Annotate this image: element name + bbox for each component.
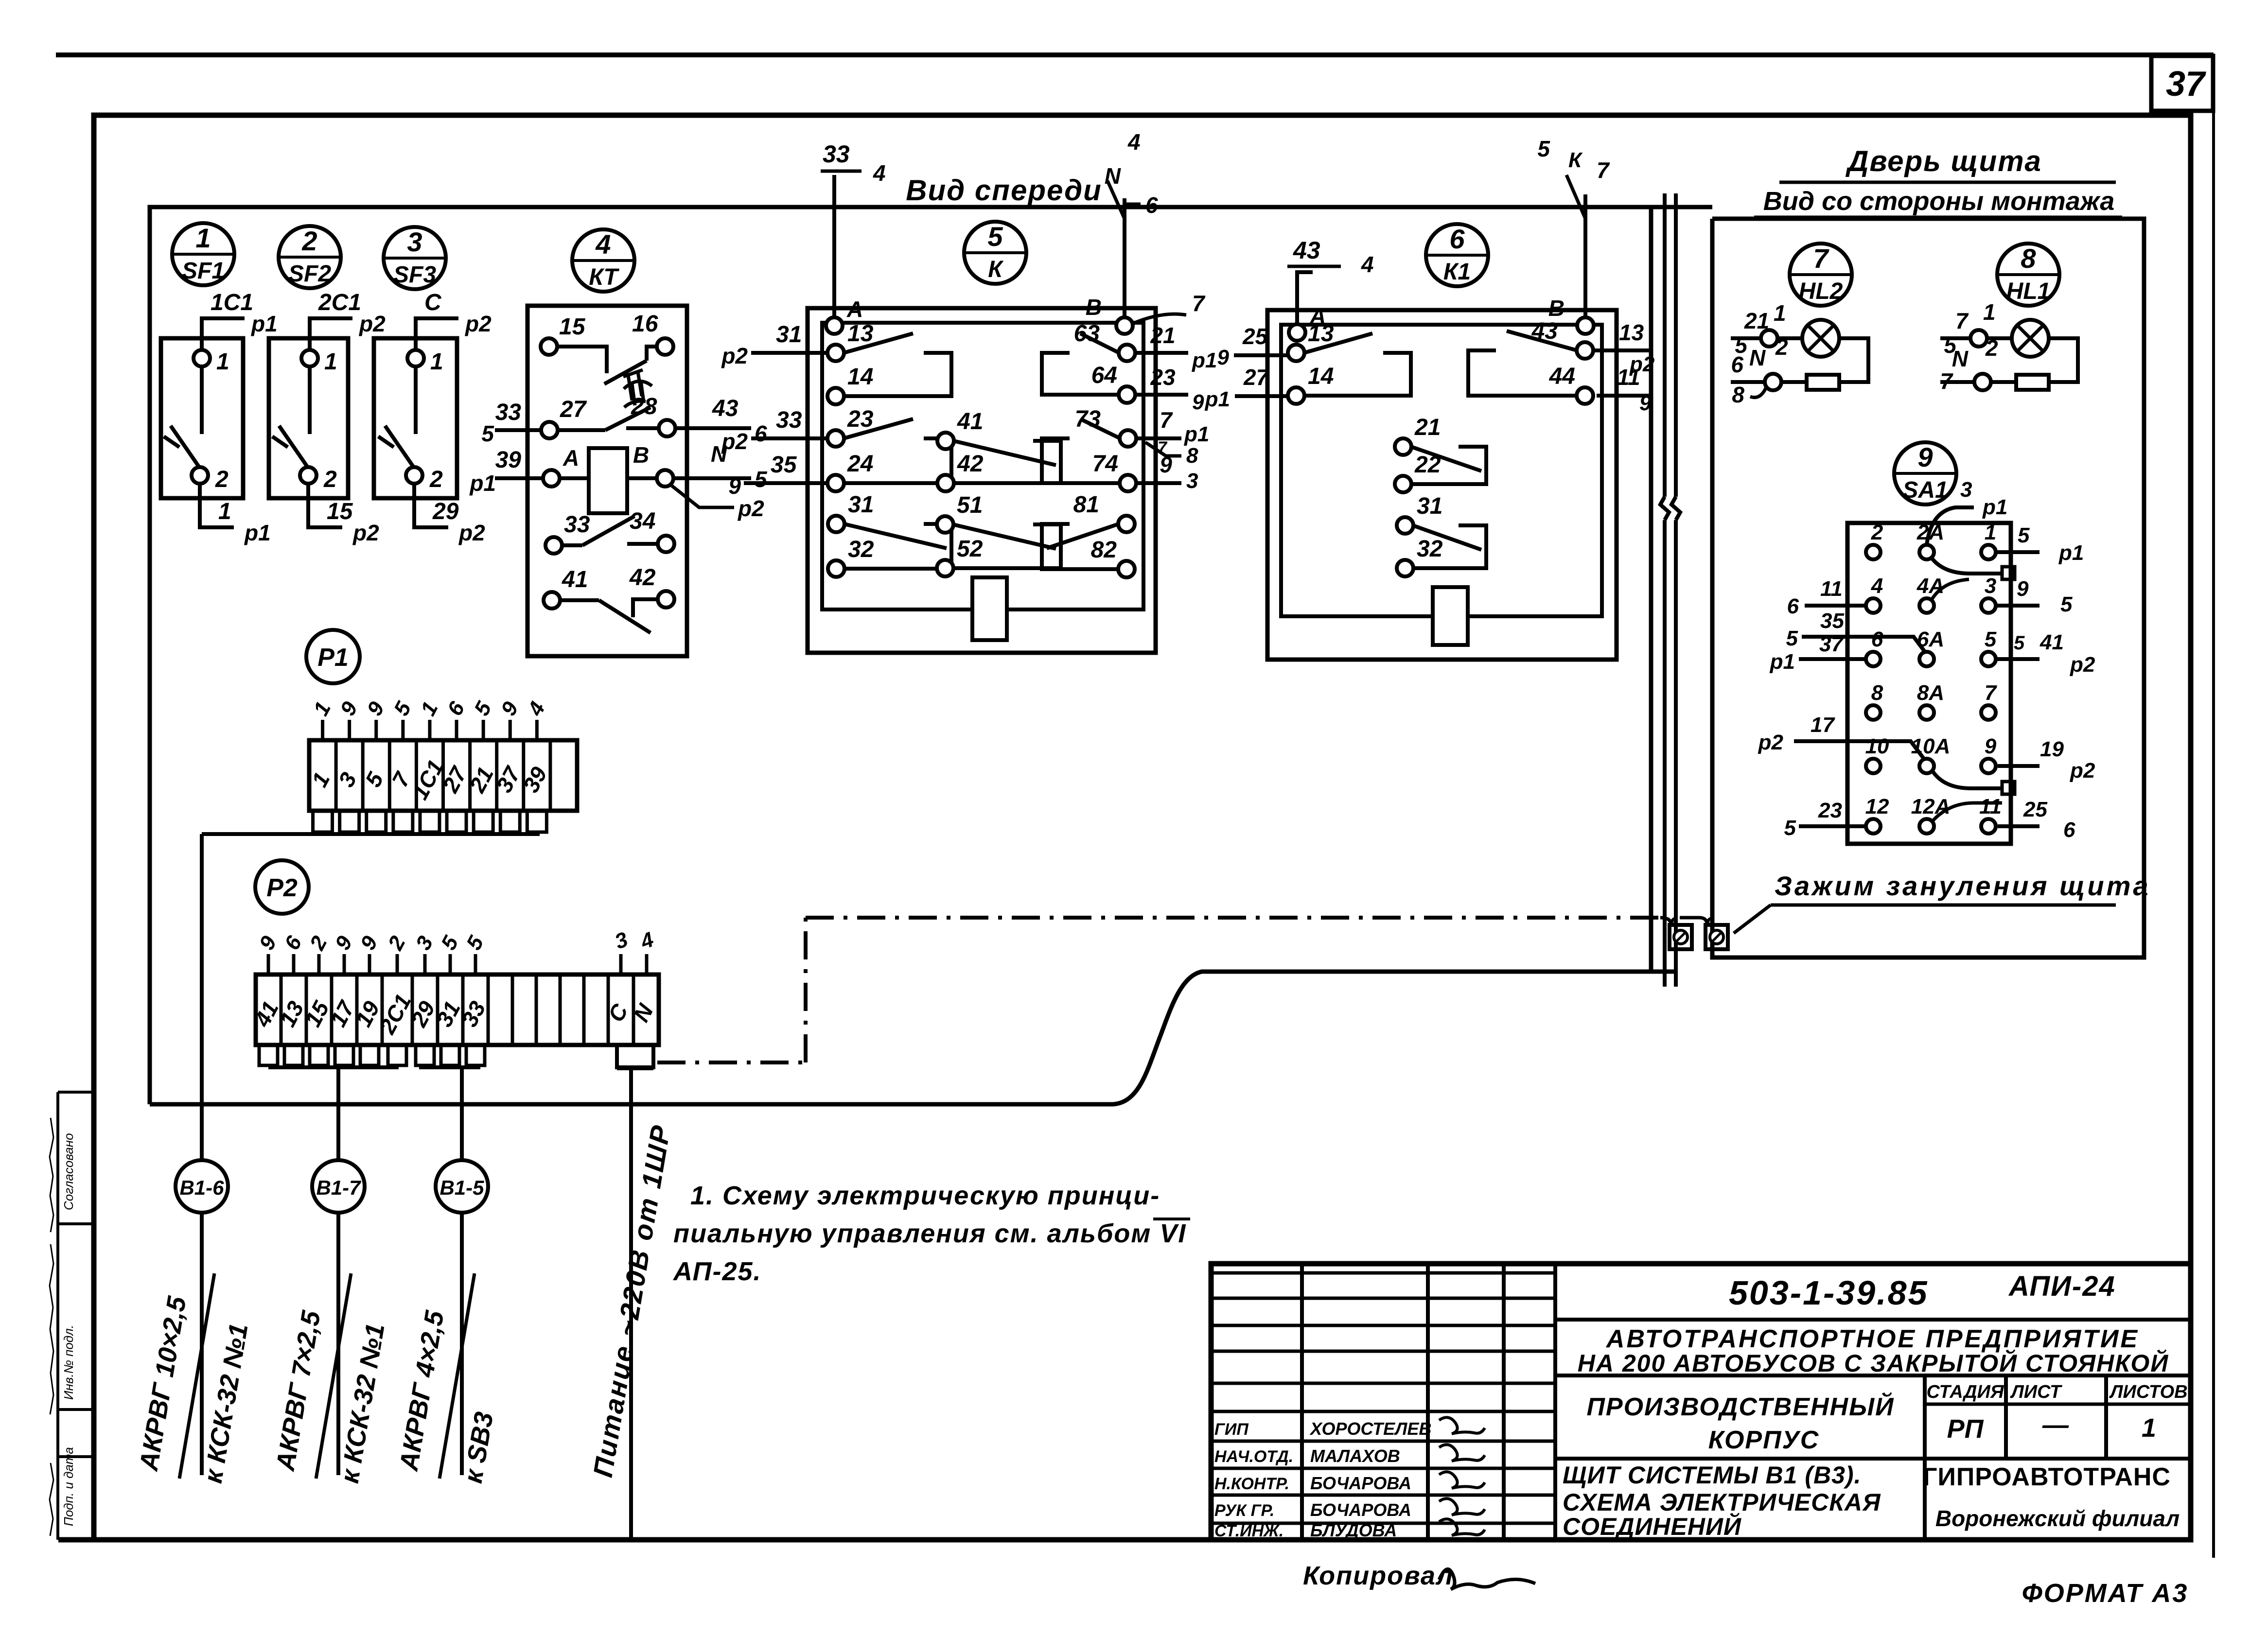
svg-text:HL1: HL1: [2006, 278, 2051, 304]
svg-text:р2: р2: [721, 343, 748, 368]
svg-text:В: В: [1086, 295, 1102, 320]
svg-text:р2: р2: [2070, 653, 2095, 677]
svg-text:4: 4: [523, 698, 550, 720]
svg-text:5: 5: [1784, 816, 1796, 840]
svg-text:р1: р1: [1184, 422, 1209, 446]
svg-text:РП: РП: [1947, 1414, 1984, 1444]
svg-text:5: 5: [2018, 523, 2030, 547]
svg-text:1. Схему электрическую принци-: 1. Схему электрическую принци-: [690, 1181, 1160, 1210]
svg-text:33: 33: [495, 400, 522, 425]
svg-text:13: 13: [847, 321, 874, 347]
svg-text:82: 82: [1091, 537, 1117, 563]
svg-text:9: 9: [1639, 391, 1652, 415]
svg-text:1: 1: [309, 698, 335, 720]
svg-text:41: 41: [2039, 630, 2064, 654]
svg-text:33: 33: [564, 512, 590, 538]
svg-text:41: 41: [562, 567, 588, 592]
svg-text:8: 8: [1732, 382, 1744, 407]
svg-text:3: 3: [1985, 574, 1996, 598]
svg-text:42: 42: [629, 565, 656, 591]
svg-text:5: 5: [987, 221, 1003, 252]
svg-text:9: 9: [331, 932, 357, 954]
svg-text:АП-25.: АП-25.: [672, 1257, 762, 1286]
svg-text:12А: 12А: [1911, 795, 1951, 818]
svg-text:5: 5: [2014, 632, 2025, 654]
svg-text:5: 5: [755, 467, 768, 492]
svg-text:52: 52: [957, 536, 983, 562]
svg-text:ЩИТ СИСТЕМЫ В1 (В3).: ЩИТ СИСТЕМЫ В1 (В3).: [1563, 1462, 1861, 1489]
svg-text:АКРВГ 7×2,5: АКРВГ 7×2,5: [270, 1308, 326, 1474]
svg-text:Вид со стороны монтажа: Вид со стороны монтажа: [1763, 187, 2114, 216]
svg-text:ЛИСТОВ: ЛИСТОВ: [2109, 1382, 2187, 1402]
svg-text:ХОРОСТЕЛЕВ: ХОРОСТЕЛЕВ: [1309, 1419, 1431, 1439]
svg-text:К: К: [1568, 148, 1583, 172]
svg-text:5: 5: [437, 932, 463, 954]
svg-text:12: 12: [1865, 795, 1889, 818]
svg-text:КТ: КТ: [589, 264, 619, 290]
svg-text:32: 32: [1417, 536, 1443, 562]
svg-text:SF3: SF3: [393, 262, 436, 288]
svg-text:14: 14: [1308, 364, 1334, 389]
svg-text:В1-5: В1-5: [440, 1176, 484, 1199]
svg-text:5: 5: [389, 697, 416, 719]
svg-text:В1-6: В1-6: [179, 1176, 224, 1199]
svg-text:КОРПУС: КОРПУС: [1708, 1426, 1820, 1454]
svg-text:БОЧАРОВА: БОЧАРОВА: [1310, 1500, 1411, 1520]
svg-text:Воронежский филиал: Воронежский филиал: [1935, 1506, 2180, 1531]
svg-text:27: 27: [560, 397, 587, 422]
svg-text:р1: р1: [244, 520, 271, 545]
svg-text:1: 1: [1985, 521, 1996, 544]
svg-text:Инв.№ подл.: Инв.№ подл.: [61, 1325, 76, 1400]
svg-text:р2: р2: [352, 520, 379, 545]
svg-text:СТАДИЯ: СТАДИЯ: [1926, 1382, 2004, 1402]
svg-text:9: 9: [356, 932, 383, 954]
svg-text:N: N: [1952, 346, 1969, 371]
svg-text:33: 33: [823, 140, 850, 168]
svg-text:К: К: [988, 257, 1004, 282]
svg-text:ГИП: ГИП: [1214, 1420, 1249, 1439]
svg-text:р1: р1: [1192, 348, 1217, 372]
svg-text:А: А: [563, 445, 579, 470]
svg-text:6: 6: [1871, 627, 1883, 651]
svg-text:33: 33: [776, 407, 802, 433]
svg-text:25: 25: [1242, 324, 1268, 349]
svg-text:С: С: [424, 290, 442, 315]
svg-text:р1: р1: [1205, 387, 1230, 411]
svg-text:17: 17: [1811, 713, 1835, 737]
svg-text:к SВ3: к SВ3: [458, 1410, 499, 1485]
svg-text:9: 9: [335, 697, 362, 719]
svg-text:3: 3: [1186, 469, 1198, 493]
svg-text:37: 37: [2166, 65, 2206, 104]
svg-text:41: 41: [957, 409, 983, 435]
svg-text:9: 9: [496, 697, 523, 719]
svg-text:44: 44: [1549, 364, 1575, 389]
svg-text:АКРВГ 4×2,5: АКРВГ 4×2,5: [394, 1308, 449, 1474]
svg-text:32: 32: [848, 537, 874, 562]
svg-text:В1-7: В1-7: [316, 1176, 361, 1199]
svg-text:5: 5: [2060, 592, 2073, 616]
svg-text:ФОРМАТ А3: ФОРМАТ А3: [2022, 1579, 2189, 1608]
svg-text:21: 21: [1150, 323, 1175, 348]
svg-text:11: 11: [1820, 577, 1843, 601]
svg-text:8: 8: [1186, 444, 1198, 468]
svg-text:7: 7: [1940, 368, 1953, 394]
svg-text:7: 7: [1597, 157, 1610, 183]
svg-text:АПИ-24: АПИ-24: [2008, 1271, 2116, 1302]
svg-text:31: 31: [848, 492, 874, 518]
svg-text:74: 74: [1092, 451, 1118, 477]
svg-text:2: 2: [429, 467, 443, 492]
svg-text:4: 4: [595, 229, 611, 260]
svg-text:2: 2: [215, 467, 229, 492]
svg-text:35: 35: [771, 452, 797, 478]
svg-text:2: 2: [301, 226, 317, 256]
svg-text:5: 5: [462, 932, 489, 954]
svg-text:503-1-39.85: 503-1-39.85: [1729, 1274, 1929, 1312]
svg-text:1: 1: [195, 223, 211, 253]
svg-text:6: 6: [755, 421, 767, 446]
svg-text:51: 51: [957, 492, 983, 518]
svg-text:9: 9: [1217, 346, 1230, 369]
svg-text:SF2: SF2: [288, 261, 331, 287]
svg-text:р1: р1: [1982, 495, 2007, 519]
svg-text:HL2: HL2: [1799, 278, 1843, 304]
svg-text:N: N: [1105, 163, 1121, 189]
svg-text:25: 25: [2023, 798, 2047, 821]
svg-text:8: 8: [2021, 243, 2036, 274]
svg-text:9: 9: [728, 473, 741, 499]
svg-text:43: 43: [712, 396, 738, 421]
svg-text:7: 7: [1985, 681, 1998, 705]
svg-text:9: 9: [255, 932, 281, 954]
svg-text:1: 1: [1774, 300, 1786, 326]
svg-text:21: 21: [1744, 308, 1769, 333]
svg-text:81: 81: [1073, 492, 1099, 518]
svg-text:В: В: [633, 442, 649, 468]
svg-text:11: 11: [1617, 365, 1640, 390]
svg-text:р1: р1: [1770, 650, 1795, 674]
svg-text:4: 4: [637, 927, 657, 954]
svg-text:МАЛАХОВ: МАЛАХОВ: [1310, 1446, 1400, 1466]
svg-text:р2: р2: [1758, 731, 1784, 754]
svg-text:SF1: SF1: [182, 258, 225, 284]
svg-text:7: 7: [1160, 407, 1173, 433]
svg-text:7: 7: [1192, 291, 1206, 316]
svg-text:SA1: SA1: [1902, 477, 1948, 503]
svg-text:23: 23: [1818, 799, 1842, 822]
svg-text:9: 9: [1917, 442, 1933, 472]
svg-text:А: А: [846, 296, 863, 322]
svg-text:39: 39: [495, 447, 522, 473]
svg-text:27: 27: [1243, 365, 1270, 390]
svg-text:р2: р2: [721, 429, 748, 454]
svg-text:3: 3: [612, 927, 631, 954]
svg-text:15: 15: [327, 499, 353, 524]
svg-text:Р1: Р1: [317, 644, 349, 672]
svg-text:1: 1: [430, 349, 443, 375]
svg-text:24: 24: [847, 451, 873, 477]
svg-text:4: 4: [1871, 574, 1883, 598]
svg-text:1: 1: [416, 698, 443, 720]
svg-text:НАЧ.ОТД.: НАЧ.ОТД.: [1214, 1447, 1293, 1466]
svg-text:N: N: [1749, 345, 1766, 370]
svg-text:К1: К1: [1443, 259, 1471, 285]
svg-text:2: 2: [383, 932, 410, 954]
svg-text:Дверь щита: Дверь щита: [1845, 145, 2042, 177]
svg-text:2С1: 2С1: [318, 290, 361, 315]
svg-text:ПРОИЗВОДСТВЕННЫЙ: ПРОИЗВОДСТВЕННЫЙ: [1587, 1392, 1895, 1421]
svg-text:БОЧАРОВА: БОЧАРОВА: [1310, 1473, 1411, 1493]
svg-text:—: —: [2042, 1410, 2069, 1440]
svg-text:пиальную управления см. альбом: пиальную управления см. альбом VI: [673, 1219, 1186, 1248]
svg-text:6: 6: [443, 697, 470, 719]
svg-text:29: 29: [432, 499, 459, 524]
svg-text:21: 21: [1414, 415, 1441, 440]
svg-text:6: 6: [1731, 352, 1743, 377]
svg-text:34: 34: [630, 508, 655, 534]
svg-text:р2: р2: [737, 496, 764, 521]
svg-text:БЛУДОВА: БЛУДОВА: [1310, 1520, 1397, 1540]
svg-text:8А: 8А: [1917, 681, 1944, 705]
svg-text:Подп. и дата: Подп. и дата: [61, 1447, 76, 1526]
svg-text:р2: р2: [458, 520, 485, 545]
svg-text:5: 5: [481, 421, 494, 446]
svg-text:10: 10: [1865, 734, 1889, 758]
svg-text:2: 2: [305, 932, 332, 954]
svg-text:6: 6: [280, 932, 307, 954]
svg-text:р2: р2: [358, 311, 386, 336]
svg-text:2: 2: [1871, 521, 1883, 544]
svg-text:РУК ГР.: РУК ГР.: [1214, 1501, 1275, 1520]
svg-text:37: 37: [1819, 632, 1844, 656]
svg-text:4: 4: [1361, 252, 1374, 277]
svg-text:р1: р1: [2058, 541, 2084, 565]
svg-text:В: В: [1548, 296, 1565, 321]
svg-text:1: 1: [216, 349, 229, 375]
svg-text:64: 64: [1091, 363, 1117, 388]
svg-text:6: 6: [1449, 224, 1465, 254]
svg-text:2: 2: [323, 467, 337, 492]
svg-text:14: 14: [847, 364, 873, 390]
svg-text:4: 4: [873, 160, 886, 186]
svg-text:Зажим зануления щита: Зажим зануления щита: [1775, 870, 2151, 901]
svg-text:31: 31: [776, 322, 802, 348]
svg-text:3: 3: [407, 226, 422, 257]
svg-text:5: 5: [1786, 627, 1798, 650]
svg-text:НА 200 АВТОБУСОВ С ЗАКРЫТОЙ СТ: НА 200 АВТОБУСОВ С ЗАКРЫТОЙ СТОЯНКОЙ: [1578, 1349, 2169, 1377]
svg-text:19: 19: [2040, 737, 2064, 761]
svg-text:4: 4: [1127, 129, 1141, 155]
svg-text:13: 13: [1619, 320, 1644, 345]
svg-text:6: 6: [2063, 818, 2075, 842]
svg-text:23: 23: [847, 406, 874, 432]
svg-text:СОЕДИНЕНИЙ: СОЕДИНЕНИЙ: [1563, 1513, 1741, 1540]
svg-text:23: 23: [1150, 365, 1176, 390]
svg-text:1: 1: [2142, 1413, 2156, 1443]
svg-text:СТ.ИНЖ.: СТ.ИНЖ.: [1214, 1522, 1283, 1540]
svg-text:9: 9: [1160, 452, 1172, 477]
svg-text:9: 9: [363, 697, 389, 719]
svg-text:8: 8: [1871, 681, 1883, 705]
svg-text:43: 43: [1293, 237, 1320, 264]
svg-text:3: 3: [411, 932, 438, 954]
svg-text:11: 11: [1979, 795, 2002, 818]
svg-text:АВТОТРАНСПОРТНОЕ ПРЕДПРИЯТИЕ: АВТОТРАНСПОРТНОЕ ПРЕДПРИЯТИЕ: [1605, 1325, 2139, 1353]
svg-text:1С1: 1С1: [211, 290, 253, 315]
svg-text:3: 3: [1960, 478, 1972, 502]
svg-text:2: 2: [1985, 335, 1998, 361]
svg-text:5: 5: [1985, 627, 1997, 651]
svg-text:13: 13: [1308, 321, 1334, 347]
svg-text:Н.КОНТР.: Н.КОНТР.: [1214, 1475, 1289, 1493]
svg-text:7: 7: [1955, 308, 1969, 333]
svg-text:1: 1: [324, 349, 337, 375]
svg-text:1: 1: [218, 499, 231, 524]
svg-text:31: 31: [1417, 493, 1442, 519]
svg-text:ГИПРОАВТОТРАНС: ГИПРОАВТОТРАНС: [1923, 1463, 2171, 1491]
svg-text:4А: 4А: [1916, 574, 1944, 598]
svg-text:к КСК-32 №1: к КСК-32 №1: [198, 1322, 254, 1485]
svg-text:Р2: Р2: [266, 874, 298, 902]
svg-text:1: 1: [1983, 299, 1996, 325]
svg-text:Копировал: Копировал: [1303, 1561, 1454, 1590]
svg-text:16: 16: [632, 311, 658, 337]
svg-text:СХЕМА ЭЛЕКТРИЧЕСКАЯ: СХЕМА ЭЛЕКТРИЧЕСКАЯ: [1563, 1489, 1881, 1516]
svg-text:15: 15: [559, 314, 586, 340]
svg-text:р1: р1: [469, 470, 496, 496]
svg-text:35: 35: [1820, 609, 1844, 633]
svg-text:7: 7: [1813, 243, 1829, 274]
svg-text:Вид спереди: Вид спереди: [906, 174, 1102, 207]
svg-text:9: 9: [2017, 577, 2029, 601]
svg-text:к КСК-32 №1: к КСК-32 №1: [335, 1322, 390, 1485]
svg-text:р1: р1: [250, 311, 278, 336]
svg-text:Согласовано: Согласовано: [61, 1133, 76, 1210]
svg-text:5: 5: [470, 697, 496, 719]
svg-text:р2: р2: [464, 311, 492, 336]
svg-text:р2: р2: [2070, 759, 2095, 783]
svg-text:6: 6: [1145, 192, 1158, 218]
svg-text:42: 42: [957, 451, 984, 477]
svg-text:5: 5: [1537, 136, 1550, 161]
svg-text:2: 2: [1775, 334, 1788, 360]
svg-text:9: 9: [1985, 734, 1997, 758]
svg-text:9: 9: [1192, 390, 1204, 414]
svg-text:ЛИСТ: ЛИСТ: [2010, 1382, 2062, 1402]
svg-text:6: 6: [1787, 594, 1799, 618]
